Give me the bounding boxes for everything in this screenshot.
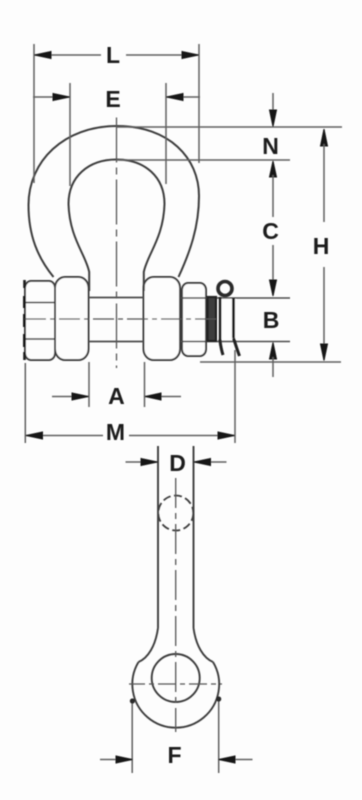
ref line bow top xyxy=(117,126,342,128)
ref line body bottom xyxy=(200,361,341,363)
dim F arrow left xyxy=(116,756,133,763)
dim F extension left xyxy=(131,702,133,773)
cotter pin white core xyxy=(218,299,236,339)
dim A arrow right xyxy=(145,393,161,400)
dim E line xyxy=(33,96,200,98)
svg-text:M: M xyxy=(106,419,125,445)
washer block xyxy=(182,283,206,356)
svg-text:N: N xyxy=(262,133,279,159)
svg-text:A: A xyxy=(108,383,125,409)
dim H bottom arrow xyxy=(321,344,328,361)
cotter pin body xyxy=(220,297,234,341)
dim N upper arrow xyxy=(272,93,274,122)
bow outer left leg xyxy=(29,205,54,277)
side view shaft right edge xyxy=(193,446,195,628)
ref line inner top xyxy=(117,159,291,161)
dim A arrow left xyxy=(72,393,89,400)
pin edges right side xyxy=(180,298,290,342)
nut facet line upper xyxy=(25,302,55,304)
dim D line xyxy=(126,461,227,463)
side view pin hole xyxy=(152,654,200,702)
horizontal centerline of pin xyxy=(25,318,218,320)
dim A extension right xyxy=(144,362,146,407)
bow inner left leg xyxy=(69,204,90,291)
dim L arrow left xyxy=(35,52,52,59)
vertical centerline of body xyxy=(116,118,118,369)
dim E arrow left xyxy=(53,94,70,101)
dim F extension right xyxy=(218,699,220,773)
dim M arrow left xyxy=(26,432,43,439)
dim E arrow right xyxy=(167,94,184,101)
nut facet line lower xyxy=(25,338,55,340)
dim M extension right xyxy=(234,350,236,443)
side view eye horizontal centerline xyxy=(129,683,222,685)
dim D arrow right xyxy=(194,459,211,466)
dim M extension left xyxy=(24,363,26,443)
dim A extension left xyxy=(88,362,90,407)
svg-text:B: B xyxy=(263,307,280,333)
hex nut xyxy=(25,281,55,360)
junction dot left xyxy=(130,698,135,703)
dim M line xyxy=(25,435,235,437)
dim B bottom arrow xyxy=(270,343,277,360)
bow outer outline xyxy=(29,126,200,277)
svg-text:H: H xyxy=(313,233,330,259)
nut left edge facets xyxy=(23,280,26,360)
dim C line xyxy=(272,175,274,292)
cotter pin right leg xyxy=(234,338,240,356)
svg-text:E: E xyxy=(105,86,120,112)
dim L extension left xyxy=(33,44,35,183)
side view eye outer xyxy=(132,662,219,728)
dim N lower arrow / dim C top arrow xyxy=(270,161,277,177)
dim C bottom arrow xyxy=(270,280,277,296)
side view vertical centerline xyxy=(175,478,177,732)
side view eye right flare xyxy=(194,628,214,662)
dim D arrow left xyxy=(141,459,158,466)
svg-text:C: C xyxy=(262,218,279,244)
right ear xyxy=(144,277,181,360)
dim A line xyxy=(52,396,181,398)
bolt stub xyxy=(208,297,217,341)
dim E extension right xyxy=(165,83,167,184)
bow section dashed circle xyxy=(158,496,193,531)
svg-text:L: L xyxy=(106,42,120,68)
dim E extension left xyxy=(69,83,71,186)
junction dot right xyxy=(216,696,221,701)
dim H line xyxy=(323,144,325,344)
svg-text:F: F xyxy=(167,742,181,768)
left ear xyxy=(55,277,89,360)
bow inner opening xyxy=(69,160,165,292)
dim L line xyxy=(34,54,199,56)
dim F arrow right xyxy=(219,756,236,763)
cotter pin ring xyxy=(218,282,232,296)
dim F line xyxy=(100,759,253,761)
dim L arrow right xyxy=(182,52,199,59)
pin top edge in jaw gap xyxy=(89,297,145,299)
dim H top arrow xyxy=(321,129,328,146)
dim L extension right xyxy=(198,44,200,163)
cotter pin left leg xyxy=(220,341,223,355)
svg-text:D: D xyxy=(169,450,186,476)
dim M arrow right xyxy=(218,432,235,439)
pin bottom edge in jaw gap xyxy=(89,341,145,343)
side view eye left flare xyxy=(139,628,159,662)
side view shaft left edge xyxy=(157,446,159,628)
